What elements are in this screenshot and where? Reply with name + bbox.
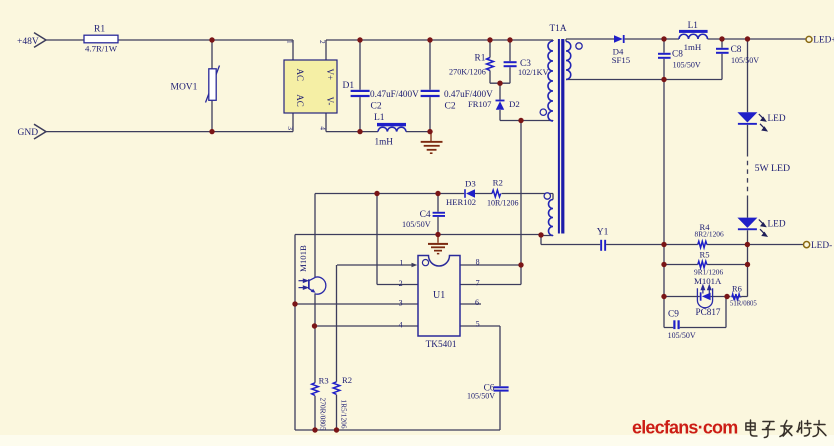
svg-text:C9: C9 <box>668 310 679 320</box>
svg-text:R2: R2 <box>342 375 352 385</box>
svg-text:1: 1 <box>286 40 294 44</box>
svg-text:1R5/1206: 1R5/1206 <box>339 399 348 428</box>
svg-text:L1: L1 <box>688 21 699 31</box>
svg-text:V-: V- <box>325 97 335 106</box>
svg-text:4: 4 <box>399 320 403 329</box>
svg-text:M101B: M101B <box>298 245 308 272</box>
svg-text:R6: R6 <box>732 284 742 293</box>
svg-text:0.47uF/400V: 0.47uF/400V <box>444 89 493 99</box>
svg-text:L1: L1 <box>374 113 385 123</box>
svg-text:6: 6 <box>475 298 479 307</box>
svg-text:51R/0805: 51R/0805 <box>730 301 757 308</box>
svg-text:105/50V: 105/50V <box>731 56 759 65</box>
svg-text:5: 5 <box>476 320 480 329</box>
svg-text:105/50V: 105/50V <box>673 60 701 69</box>
svg-text:T1A: T1A <box>550 24 567 34</box>
svg-text:elecfans·com: elecfans·com <box>632 418 737 438</box>
svg-text:0.47uF/400V: 0.47uF/400V <box>370 89 419 99</box>
svg-text:C4: C4 <box>420 210 431 220</box>
svg-text:4.7R/1W: 4.7R/1W <box>85 44 118 54</box>
svg-text:U1: U1 <box>433 290 445 301</box>
svg-text:105/50V: 105/50V <box>668 331 696 340</box>
svg-text:TK5401: TK5401 <box>426 340 457 350</box>
svg-text:R3: R3 <box>319 376 329 386</box>
svg-text:102/1KV: 102/1KV <box>518 68 549 77</box>
svg-text:D1: D1 <box>343 81 355 91</box>
svg-text:105/50V: 105/50V <box>467 392 495 401</box>
svg-text:HER102: HER102 <box>446 197 476 207</box>
svg-text:R2: R2 <box>493 178 503 188</box>
svg-text:+48V: +48V <box>17 37 39 47</box>
svg-text:270K/1206: 270K/1206 <box>449 68 486 77</box>
svg-text:270R/0805: 270R/0805 <box>318 398 327 431</box>
svg-text:LED+: LED+ <box>813 36 834 46</box>
svg-text:D2: D2 <box>509 99 520 109</box>
svg-text:2: 2 <box>318 40 326 44</box>
svg-text:2: 2 <box>399 279 403 288</box>
svg-text:V+: V+ <box>325 69 335 81</box>
svg-text:8: 8 <box>476 258 480 267</box>
svg-text:R1: R1 <box>475 54 486 64</box>
svg-text:AC: AC <box>295 69 305 82</box>
svg-text:LED: LED <box>768 220 786 230</box>
svg-text:3: 3 <box>399 299 403 308</box>
svg-text:5W LED: 5W LED <box>755 163 790 174</box>
svg-text:C2: C2 <box>371 102 382 112</box>
svg-text:LED-: LED- <box>811 241 832 251</box>
svg-text:Y1: Y1 <box>597 228 609 238</box>
svg-text:4: 4 <box>318 126 326 130</box>
svg-text:LED: LED <box>768 114 786 124</box>
svg-text:R5: R5 <box>700 249 710 259</box>
svg-text:MOV1: MOV1 <box>171 83 198 93</box>
svg-text:C8: C8 <box>731 45 742 55</box>
svg-text:M101A: M101A <box>694 276 722 286</box>
svg-text:PC817: PC817 <box>696 307 721 317</box>
svg-text:3: 3 <box>286 126 294 130</box>
svg-text:FR107: FR107 <box>468 99 492 109</box>
svg-text:1mH: 1mH <box>375 137 394 147</box>
svg-text:C2: C2 <box>445 102 456 112</box>
svg-text:R1: R1 <box>94 25 105 35</box>
svg-text:1mH: 1mH <box>684 42 702 52</box>
svg-text:SF15: SF15 <box>612 55 631 65</box>
svg-text:C8: C8 <box>672 50 683 60</box>
svg-text:1: 1 <box>400 258 404 267</box>
svg-text:7: 7 <box>476 279 480 288</box>
svg-text:D3: D3 <box>465 179 476 189</box>
svg-text:AC: AC <box>295 94 305 107</box>
svg-text:GND: GND <box>18 128 39 138</box>
svg-text:105/50V: 105/50V <box>402 220 431 229</box>
svg-text:10R/1206: 10R/1206 <box>487 199 519 208</box>
svg-text:8R2/1206: 8R2/1206 <box>695 229 724 238</box>
